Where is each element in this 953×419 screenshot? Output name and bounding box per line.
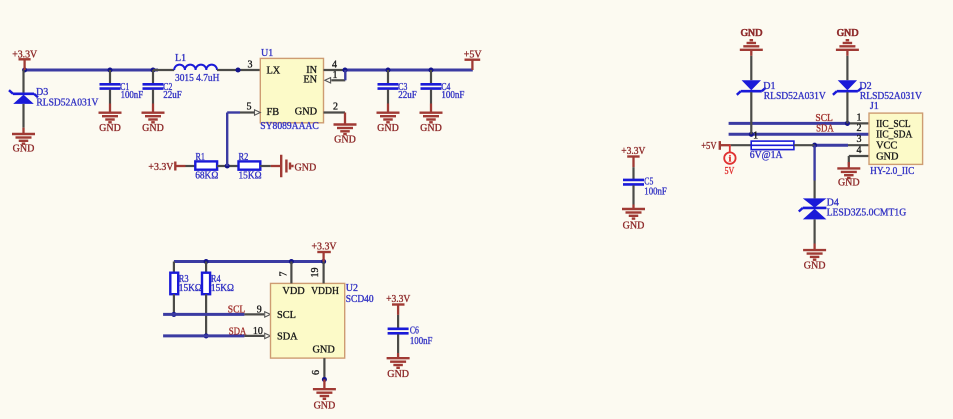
- svg-text:U1: U1: [261, 48, 273, 59]
- svg-text:VCC: VCC: [876, 141, 897, 152]
- svg-text:GND: GND: [623, 221, 645, 232]
- svg-text:LESD3Z5.0CMT1G: LESD3Z5.0CMT1G: [827, 208, 907, 219]
- svg-text:IIC_SDA: IIC_SDA: [876, 130, 913, 141]
- svg-text:22uF: 22uF: [163, 90, 182, 101]
- svg-text:SDA: SDA: [816, 124, 834, 135]
- svg-text:GND: GND: [334, 135, 356, 146]
- svg-text:2: 2: [333, 102, 338, 113]
- svg-text:GND: GND: [387, 369, 409, 380]
- svg-text:22uF: 22uF: [398, 90, 417, 101]
- svg-text:U2: U2: [346, 283, 358, 294]
- svg-text:15KΩ: 15KΩ: [179, 283, 202, 294]
- svg-text:GND: GND: [876, 151, 899, 162]
- svg-text:GND: GND: [314, 401, 336, 412]
- svg-text:RLSD52A031V: RLSD52A031V: [36, 97, 99, 108]
- svg-text:HY-2.0_IIC: HY-2.0_IIC: [870, 166, 915, 177]
- svg-text:15KΩ: 15KΩ: [239, 170, 262, 181]
- svg-text:100nF: 100nF: [644, 187, 667, 198]
- svg-text:1: 1: [753, 131, 758, 142]
- svg-text:J1: J1: [870, 101, 879, 112]
- svg-text:R1: R1: [196, 152, 206, 163]
- svg-text:IIC_SCL: IIC_SCL: [876, 119, 911, 130]
- svg-text:68KΩ: 68KΩ: [195, 170, 218, 181]
- svg-text:i: i: [729, 155, 732, 165]
- svg-text:SCL: SCL: [815, 113, 833, 124]
- svg-text:10: 10: [253, 326, 263, 337]
- svg-text:100nF: 100nF: [121, 90, 144, 101]
- svg-text:FB: FB: [267, 107, 280, 118]
- svg-text:9: 9: [257, 305, 262, 316]
- svg-text:+5V: +5V: [464, 50, 483, 61]
- svg-text:+5V: +5V: [701, 141, 717, 152]
- svg-text:SCL: SCL: [228, 304, 245, 315]
- svg-text:VDDH: VDDH: [311, 286, 339, 297]
- svg-text:19: 19: [310, 268, 321, 278]
- svg-text:GND: GND: [420, 123, 442, 134]
- svg-text:EN: EN: [303, 75, 317, 86]
- svg-text:GND: GND: [13, 144, 35, 155]
- svg-text:1: 1: [857, 112, 862, 123]
- svg-text:6V@1A: 6V@1A: [750, 150, 783, 161]
- svg-text:R2: R2: [239, 152, 249, 163]
- svg-text:100nF: 100nF: [441, 90, 464, 101]
- svg-text:2: 2: [857, 123, 862, 134]
- svg-text:GND: GND: [295, 163, 317, 174]
- svg-text:4: 4: [857, 145, 862, 156]
- svg-text:LX: LX: [267, 65, 281, 76]
- svg-text:3: 3: [248, 60, 253, 71]
- svg-text:GND: GND: [142, 123, 164, 134]
- svg-text:L1: L1: [175, 53, 186, 64]
- svg-text:100nF: 100nF: [410, 336, 433, 347]
- svg-text:GND: GND: [837, 28, 859, 39]
- svg-text:GND: GND: [804, 261, 826, 272]
- svg-text:SY8089AAAC: SY8089AAAC: [260, 121, 319, 132]
- svg-text:3015 4.7uH: 3015 4.7uH: [175, 73, 219, 84]
- svg-text:SDA: SDA: [277, 331, 298, 342]
- svg-text:GND: GND: [99, 123, 121, 134]
- svg-text:15KΩ: 15KΩ: [211, 283, 234, 294]
- svg-text:GND: GND: [377, 123, 399, 134]
- svg-text:7: 7: [279, 272, 290, 277]
- svg-text:+3.3V: +3.3V: [12, 49, 38, 60]
- svg-text:GND: GND: [740, 28, 762, 39]
- svg-text:+3.3V: +3.3V: [386, 294, 411, 305]
- svg-text:5V: 5V: [725, 166, 735, 177]
- svg-text:GND: GND: [312, 344, 335, 355]
- svg-text:SCD40: SCD40: [346, 294, 374, 305]
- svg-text:GND: GND: [838, 178, 860, 189]
- svg-text:C6: C6: [410, 325, 419, 336]
- svg-text:SCL: SCL: [277, 310, 296, 321]
- svg-text:RLSD52A031V: RLSD52A031V: [764, 91, 827, 102]
- svg-text:GND: GND: [295, 107, 318, 118]
- svg-text:VDD: VDD: [282, 286, 305, 297]
- svg-text:+3.3V: +3.3V: [312, 242, 338, 253]
- svg-text:5: 5: [247, 102, 252, 113]
- svg-text:SDA: SDA: [229, 326, 247, 337]
- svg-text:3: 3: [857, 134, 862, 145]
- svg-text:6: 6: [311, 370, 322, 375]
- svg-text:+3.3V: +3.3V: [148, 162, 174, 173]
